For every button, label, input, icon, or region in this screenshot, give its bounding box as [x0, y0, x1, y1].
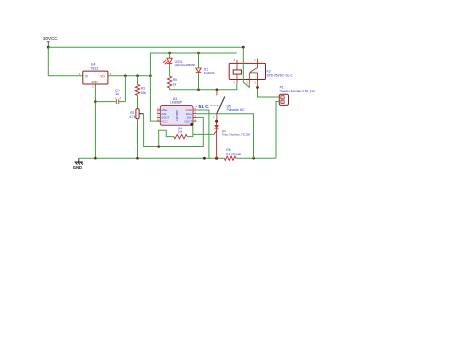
wire opamp 1IN+ to ground rail [197, 114, 254, 159]
svg-text:VO: VO [100, 74, 105, 78]
node C1 left junction [94, 100, 97, 103]
wire ground rail left segment [79, 157, 225, 159]
power flag 30VCC [43, 36, 58, 47]
connector P1 Header-Female-2.54_1x2 [279, 85, 315, 105]
node relay output junction [256, 86, 259, 89]
wire R3 top lead [137, 76, 139, 85]
svg-text:SPD-05VDC-SL-C: SPD-05VDC-SL-C [267, 74, 294, 78]
svg-text:Pulsador NC: Pulsador NC [227, 108, 246, 112]
capacitor C? 1u [95, 89, 125, 104]
svg-text:Triac_Thyristor_TIC106: Triac_Thyristor_TIC106 [222, 132, 251, 136]
wire R5 bottom lead [169, 88, 171, 90]
wire left drop to regulator input [48, 47, 83, 75]
svg-text:VCC: VCC [161, 119, 168, 123]
wire R2 bottom to ground rail [137, 119, 139, 159]
svg-text:LED-Red0805b: LED-Red0805b [175, 63, 196, 67]
op-amp U3 LM358P [157, 97, 197, 125]
resistor R5 1k [167, 76, 177, 88]
wire gate line from 1OUT to triac [193, 133, 214, 135]
wire VO rail [108, 75, 150, 77]
svg-text:1u: 1u [115, 92, 119, 96]
node ground rail at R2 [136, 157, 139, 160]
node LED rail at D1 [197, 52, 200, 55]
svg-text:Header-Female-2.54_1x2: Header-Female-2.54_1x2 [280, 89, 316, 93]
svg-text:VI: VI [85, 74, 88, 78]
svg-text:30VCC: 30VCC [43, 36, 58, 41]
svg-text:GND: GND [73, 165, 82, 170]
wire LED1 anode lead [169, 53, 171, 58]
ground symbol GND [73, 158, 83, 170]
wire relay common to P1 pin1 [258, 84, 280, 97]
wire R4 left lead to feedback tap [159, 130, 174, 146]
wire top rail drop to relay NO pin [243, 47, 249, 87]
diode D1 1N4003 [196, 67, 215, 75]
relay K2 SPD-05VDC-SL-C [229, 58, 293, 84]
svg-text:Q1: Q1 [222, 129, 226, 133]
wire P1 pin2 to ground rail [276, 102, 279, 159]
node LED rail at LED1 [168, 52, 171, 55]
trimmer resistor R2 4.7k [129, 109, 143, 119]
resistor R4 10k [174, 126, 188, 139]
wire regulator ground drop [94, 87, 96, 159]
node 1OUT junction [190, 123, 193, 126]
svg-text:1OUT: 1OUT [184, 119, 192, 123]
svg-text:- 51 C: - 51 C [196, 104, 210, 110]
wire R3 to R2 [137, 95, 139, 108]
svg-text:7812: 7812 [90, 66, 98, 70]
resistor R6 0.1 10 watt [224, 148, 241, 161]
wire D1 top lead [198, 53, 200, 68]
resistor R3 33k [135, 84, 146, 95]
wire D1 bottom lead [198, 73, 200, 90]
node mid rail at D1 [197, 88, 200, 91]
svg-text:4.7k: 4.7k [129, 115, 135, 119]
node VO junction at C1 [124, 74, 127, 77]
wire R4 right lead to 1OUT [187, 121, 193, 137]
wire 12V riser and LED rail [150, 53, 236, 121]
wire opamp GND pin to ground rail [197, 110, 209, 158]
svg-text:1N4003: 1N4003 [204, 71, 215, 75]
node ground rail at opamp gnd [203, 157, 206, 160]
node feedback tap on wiper wire [157, 145, 160, 148]
node 30VCC junction [47, 46, 50, 49]
wire LED1 cathode to R5 [169, 64, 171, 76]
triac Q1 Triac_Thyristor_TIC106 [214, 120, 251, 159]
node top rail corner junction [242, 46, 245, 49]
node mid rail at switch [216, 88, 219, 91]
node ground rail at regulator [94, 157, 97, 160]
node ground rail at triac [215, 157, 218, 160]
pushbutton U5 Pulsador NC [196, 90, 246, 119]
node switch to triac junction [215, 120, 218, 123]
node ground rail at P1 return [252, 157, 255, 160]
svg-text:10k: 10k [178, 130, 183, 134]
voltage regulator U4 7812 [79, 63, 112, 89]
LED LED1 LED-Red0805b [163, 58, 196, 67]
svg-text:0.1 10 watt: 0.1 10 watt [226, 152, 241, 156]
svg-text:33k: 33k [141, 91, 147, 95]
node VO junction at R3 [136, 74, 139, 77]
svg-text:1k: 1k [173, 82, 177, 86]
node VO junction at riser [149, 74, 152, 77]
svg-text:LM358P: LM358P [170, 101, 182, 105]
wire top rail [48, 46, 243, 48]
wire C1 right riser to VO [124, 76, 126, 102]
wire mid rail [170, 84, 237, 90]
wire opamp 1IN- to trimmer wiper [144, 114, 204, 147]
svg-text:LM358P: LM358P [175, 110, 179, 121]
wire ground rail right segment [236, 157, 276, 159]
